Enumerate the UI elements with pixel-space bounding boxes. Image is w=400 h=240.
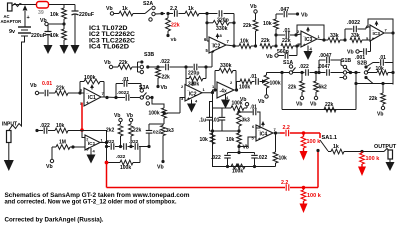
bottom network wire bbox=[212, 166, 276, 168]
svg-text:220uF: 220uF bbox=[79, 12, 94, 18]
resistor 6k2 to Vb bbox=[315, 73, 317, 82]
ground under 10k bbox=[63, 40, 65, 45]
svg-text:33k: 33k bbox=[330, 33, 339, 39]
resistor 10k upper bbox=[63, 5, 65, 9]
wire output bbox=[234, 89, 238, 91]
wire pin5 to Vb node bbox=[240, 137, 256, 147]
capacitor .01 loop to S2B bbox=[366, 63, 380, 68]
wire wiper to IC2a pin3 bbox=[180, 98, 185, 114]
wire output down to 10k bbox=[275, 133, 277, 152]
feedback wire IC3a bbox=[317, 39, 324, 40]
svg-text:Vb: Vb bbox=[301, 13, 308, 19]
node Vb top chain bbox=[110, 12, 113, 15]
svg-text:.1u: .1u bbox=[199, 118, 206, 124]
svg-text:10k: 10k bbox=[240, 39, 249, 45]
svg-text:.022: .022 bbox=[105, 139, 115, 145]
resistor 2k2 to Vb bbox=[119, 118, 122, 121]
svg-text:100k: 100k bbox=[239, 85, 250, 91]
red resistor 100 k to ground bbox=[303, 133, 305, 137]
wiper from pot gain trim bbox=[237, 109, 241, 113]
node bbox=[251, 45, 256, 47]
svg-text:33k: 33k bbox=[351, 33, 360, 39]
capacitor .1 bbox=[210, 102, 213, 118]
svg-text:.022: .022 bbox=[152, 130, 162, 136]
op-amp IC4 bbox=[256, 125, 273, 141]
IC1a output bbox=[100, 142, 107, 144]
svg-text:IC1: IC1 bbox=[88, 141, 96, 147]
top supply rail bbox=[13, 4, 37, 6]
red ground 2 bbox=[300, 151, 308, 161]
svg-text:10k: 10k bbox=[50, 12, 59, 18]
capacitor .022 right bbox=[254, 153, 256, 155]
svg-text:.047: .047 bbox=[279, 7, 289, 13]
wire bbox=[368, 72, 377, 74]
svg-text:.01: .01 bbox=[213, 118, 220, 124]
svg-text:100 k: 100 k bbox=[307, 139, 322, 145]
resistor 100k bbox=[237, 81, 241, 83]
svg-text:.022: .022 bbox=[40, 123, 50, 129]
wire battery minus down to input jack bbox=[22, 36, 25, 119]
op-amp IC2 pins 1-3 bbox=[185, 85, 202, 102]
svg-text:220p: 220p bbox=[188, 71, 199, 77]
svg-text:1k: 1k bbox=[333, 144, 339, 150]
capacitor .0047 upper parallel bbox=[318, 60, 320, 73]
resistor 1k output bbox=[328, 151, 331, 153]
svg-text:22k: 22k bbox=[56, 86, 65, 92]
svg-text:ADAPTOR: ADAPTOR bbox=[1, 19, 22, 24]
svg-text:6k2: 6k2 bbox=[319, 85, 328, 91]
svg-text:Vb: Vb bbox=[161, 85, 168, 91]
input network .022 10k bbox=[35, 129, 38, 132]
capacitor .01 to IC4 bbox=[252, 109, 254, 116]
svg-text:2: 2 bbox=[86, 137, 88, 141]
wire row y131 bbox=[210, 130, 240, 132]
svg-text:.0022: .0022 bbox=[347, 20, 360, 26]
capacitor .01 bbox=[252, 81, 255, 83]
wire to pin2 bbox=[82, 131, 85, 138]
svg-text:Vb: Vb bbox=[106, 6, 113, 12]
switch S3A bbox=[140, 89, 143, 92]
svg-text:Vb: Vb bbox=[377, 112, 383, 118]
wire line A to pin6 bbox=[256, 112, 260, 128]
pot 100k (drive) bbox=[162, 108, 167, 118]
svg-text:1M: 1M bbox=[59, 140, 66, 146]
svg-text:2k2: 2k2 bbox=[106, 128, 115, 134]
resistor 10k lower bbox=[63, 24, 65, 29]
red wire up to SA1.1 bbox=[317, 151, 319, 188]
op-amp IC1 pins 5-7 bbox=[84, 88, 101, 106]
resistor 22k pullup to Vb bbox=[255, 31, 257, 46]
wire cap tops bbox=[228, 152, 255, 154]
capacitor 0.01 (red label) bbox=[39, 92, 44, 94]
red mod wire pin5 to input node bbox=[81, 103, 83, 131]
node Vb S3B feed bbox=[109, 65, 112, 68]
wire down to IC2a pin2 bbox=[185, 67, 187, 85]
svg-text:Vb: Vb bbox=[266, 54, 273, 60]
pot 100k gain trim bbox=[212, 93, 214, 167]
svg-text:and corrected. Now we got GT-2: and corrected. Now we got GT-2_12 older … bbox=[5, 199, 177, 206]
resistor 1k second bbox=[185, 11, 199, 16]
svg-text:.022: .022 bbox=[258, 155, 268, 161]
capacitor 220uF (Vb filter) bbox=[47, 24, 49, 31]
AC adaptor jack bbox=[8, 3, 13, 11]
svg-text:100k: 100k bbox=[270, 81, 281, 87]
svg-text:.01: .01 bbox=[283, 28, 290, 34]
svg-text:100 k: 100 k bbox=[366, 156, 381, 162]
svg-text:100k: 100k bbox=[232, 169, 243, 175]
svg-text:IC3: IC3 bbox=[373, 31, 381, 37]
svg-text:10k: 10k bbox=[50, 33, 59, 39]
svg-text:22k: 22k bbox=[261, 38, 270, 44]
capacitor .022 bbox=[302, 72, 305, 74]
svg-text:.01: .01 bbox=[379, 55, 386, 61]
ground input jack bbox=[8, 143, 10, 161]
svg-text:IC4: IC4 bbox=[260, 132, 268, 138]
svg-text:_: _ bbox=[85, 90, 89, 95]
svg-text:22k: 22k bbox=[243, 23, 252, 29]
svg-text:Vb: Vb bbox=[310, 102, 316, 108]
red ground 3 bbox=[358, 167, 366, 177]
ground under 220uF 2 bbox=[71, 45, 80, 54]
wire bbox=[155, 13, 165, 16]
svg-text:Vb: Vb bbox=[258, 99, 264, 105]
resistor 33k second bbox=[350, 38, 362, 43]
feedback wire IC1a bbox=[82, 131, 107, 143]
svg-text:2.2: 2.2 bbox=[281, 180, 288, 186]
battery 9v bbox=[24, 11, 26, 27]
branch 10k and cap .047 to Vb bbox=[275, 29, 277, 46]
capacitor .01 bypass branch bbox=[115, 84, 117, 98]
resistor 33k bbox=[324, 39, 328, 41]
svg-text:_: _ bbox=[186, 86, 190, 91]
capacitor .022 tone bbox=[158, 66, 165, 68]
red resistor 100 k bus to ground bbox=[303, 188, 305, 191]
capacitor .01 vert bbox=[221, 108, 223, 117]
wire output down right side bbox=[392, 33, 394, 85]
svg-text:Vb: Vb bbox=[347, 50, 354, 56]
resistor 3k3 bbox=[162, 124, 164, 126]
node Vb (supply midpoint) bbox=[45, 22, 48, 25]
svg-text:Vb: Vb bbox=[171, 37, 177, 42]
svg-text:22k: 22k bbox=[133, 128, 142, 134]
svg-text:3k3: 3k3 bbox=[242, 118, 251, 124]
resistor 1k bbox=[114, 13, 119, 15]
wire bottom row bbox=[282, 109, 356, 111]
capacitor .0022 in line bbox=[116, 97, 125, 99]
svg-text:Vb: Vb bbox=[296, 102, 302, 108]
capacitor .001 from Vb to pin5 bbox=[356, 50, 359, 53]
svg-text:2.2: 2.2 bbox=[170, 6, 177, 12]
svg-text:39: 39 bbox=[38, 10, 44, 16]
capacitor .022 left bbox=[227, 153, 229, 155]
svg-text:10k: 10k bbox=[200, 137, 209, 143]
capacitor .0047 lower bbox=[316, 72, 326, 74]
red capacitor 2.2 bus bbox=[285, 184, 287, 191]
resistor 10k mid bbox=[238, 131, 240, 133]
red resistor 100 k output load bbox=[361, 152, 363, 154]
capacitor .022 row 1 bbox=[107, 146, 111, 148]
wire S3A pole to pot bbox=[152, 98, 164, 109]
op-amp IC2 pins 5-7 bbox=[209, 37, 226, 53]
svg-text:Vb: Vb bbox=[157, 165, 164, 171]
capacitor .0022 bbox=[344, 29, 346, 40]
svg-text:10k: 10k bbox=[226, 137, 235, 143]
red capacitor 2.2 bbox=[285, 130, 287, 137]
svg-text:OUTPUT: OUTPUT bbox=[374, 144, 397, 150]
ground under 220uF bbox=[44, 45, 53, 54]
svg-text:22k: 22k bbox=[288, 85, 297, 91]
wire S2B lower to bottom row bbox=[366, 78, 393, 84]
svg-text:1k: 1k bbox=[122, 6, 128, 12]
svg-text:220uF: 220uF bbox=[31, 33, 46, 39]
capacitor .022 row 2 bbox=[121, 146, 123, 148]
wiper arrow into drive pot bbox=[262, 79, 266, 83]
svg-text:3: 3 bbox=[86, 147, 88, 151]
capacitor 220uF (supply filter) bbox=[74, 5, 76, 12]
feedback wire IC3b bbox=[368, 19, 393, 33]
svg-text:.01: .01 bbox=[250, 105, 257, 111]
diode arrow on battery feed bbox=[23, 5, 28, 11]
svg-text:1k: 1k bbox=[188, 6, 194, 12]
ground output jack bbox=[389, 159, 391, 162]
resistor 10k output leg bbox=[273, 152, 278, 163]
capacitor 2.2 bbox=[168, 13, 173, 15]
op-amp IC3 pins 1-3 bbox=[301, 31, 317, 47]
capacitor 560p to Vb bbox=[296, 46, 298, 56]
red mod wire from IC1a output node bbox=[105, 161, 109, 165]
svg-text:.01: .01 bbox=[250, 74, 257, 80]
resistor 22k bbox=[55, 91, 68, 96]
resistor 22k to Vb S3A row bbox=[157, 67, 159, 68]
svg-text:Vb: Vb bbox=[240, 97, 246, 103]
svg-text:.022: .022 bbox=[129, 139, 139, 145]
resistor 330k parallel bbox=[185, 67, 187, 79]
resistor 22k to Vb row bbox=[129, 118, 132, 121]
red bus bottom bbox=[107, 187, 286, 189]
IC4 output bbox=[273, 132, 280, 134]
svg-text:330k: 330k bbox=[220, 63, 232, 69]
svg-text:9v: 9v bbox=[9, 29, 16, 35]
svg-text:+: + bbox=[303, 43, 306, 48]
wire pin5 down to tone network bbox=[211, 52, 213, 67]
wire branch down from S1A row bbox=[280, 71, 283, 74]
op-amp -4x bbox=[217, 82, 234, 98]
resistor 22k series 2 bbox=[281, 44, 293, 49]
resistor 22k to Vb (red label) bbox=[167, 14, 169, 19]
resistor 22k horizontal bbox=[324, 107, 336, 112]
svg-text:.0047: .0047 bbox=[319, 53, 332, 59]
svg-text:S2A: S2A bbox=[143, 1, 153, 7]
wire bbox=[293, 72, 302, 74]
svg-text:330k: 330k bbox=[216, 26, 228, 32]
wire pin3 bbox=[297, 44, 301, 46]
wire IC2a output to -4x stage bbox=[202, 90, 217, 93]
svg-text:S3A: S3A bbox=[139, 85, 149, 91]
svg-text:Corrected by DarkAngel (Russia: Corrected by DarkAngel (Russia). bbox=[5, 217, 104, 224]
svg-text:SA1.1: SA1.1 bbox=[322, 135, 338, 141]
wire 3k3 to Vb bbox=[162, 136, 164, 161]
svg-text:Vb: Vb bbox=[127, 113, 133, 119]
svg-text:IC2: IC2 bbox=[213, 44, 221, 50]
resistor 22k to Vb right bbox=[381, 82, 384, 85]
svg-text:22k: 22k bbox=[282, 38, 291, 44]
red wire IC4 output bbox=[280, 132, 285, 134]
svg-text:S3B: S3B bbox=[144, 52, 154, 58]
svg-text:.022: .022 bbox=[160, 59, 170, 65]
capacitor .01 to IC3 pin2 bbox=[274, 33, 277, 36]
inverting stage -4x with 330k feedback bbox=[214, 71, 216, 91]
resistor 10k bbox=[377, 70, 388, 75]
svg-text:S1B: S1B bbox=[341, 58, 351, 64]
svg-text:100 k: 100 k bbox=[307, 193, 322, 199]
svg-text:.022: .022 bbox=[116, 154, 126, 160]
wire IC1b output bbox=[101, 96, 104, 98]
resistor 100k feedback bbox=[79, 82, 81, 94]
svg-text:10k: 10k bbox=[279, 156, 288, 162]
svg-text:Vb: Vb bbox=[46, 164, 53, 170]
svg-text:.022: .022 bbox=[299, 64, 309, 70]
resistor 10k left bbox=[210, 133, 215, 144]
svg-text:3k3: 3k3 bbox=[166, 128, 175, 134]
resistor 1M to Vb bbox=[56, 145, 70, 150]
svg-text:10k: 10k bbox=[263, 21, 272, 27]
wire drop mid bbox=[355, 73, 357, 84]
svg-text:IC2: IC2 bbox=[189, 92, 197, 98]
node Vb mid bbox=[35, 91, 38, 94]
op-amp IC1 pins 1-3 bbox=[85, 135, 100, 150]
wire right column down bbox=[356, 83, 393, 85]
svg-text:.0022: .0022 bbox=[117, 90, 129, 96]
svg-text:22k: 22k bbox=[119, 60, 128, 66]
svg-text:Vb: Vb bbox=[104, 60, 111, 66]
svg-text:+: + bbox=[27, 15, 30, 21]
svg-text:0.01: 0.01 bbox=[42, 81, 52, 87]
svg-text:IC4 TL062D: IC4 TL062D bbox=[89, 44, 130, 51]
svg-text:Vb: Vb bbox=[40, 18, 47, 24]
svg-text:IC1: IC1 bbox=[88, 95, 96, 101]
red ground bbox=[300, 204, 308, 214]
svg-text:100k: 100k bbox=[84, 75, 96, 81]
svg-text:10k: 10k bbox=[56, 123, 65, 129]
resistor 22k series bbox=[260, 44, 272, 49]
svg-text:100k: 100k bbox=[120, 165, 131, 171]
svg-text:100k: 100k bbox=[149, 111, 160, 117]
svg-text:2.2: 2.2 bbox=[283, 125, 290, 131]
wire bbox=[347, 72, 361, 74]
pot 100k drive amount bbox=[264, 75, 269, 88]
svg-text:Vb: Vb bbox=[250, 4, 257, 10]
resistor 100k bypass bbox=[106, 147, 108, 163]
wire adaptor to rail with switch hook bbox=[12, 4, 22, 7]
svg-text:INPUT: INPUT bbox=[2, 122, 17, 128]
resistor 10k bbox=[234, 45, 239, 47]
switch S2A bbox=[133, 13, 145, 15]
wire line A bbox=[239, 111, 253, 113]
capacitor .022 row 3 bbox=[131, 146, 134, 148]
resistor 39 (red highlighted) bbox=[37, 2, 49, 9]
capacitor 220p bbox=[186, 66, 193, 68]
svg-text:10k: 10k bbox=[376, 66, 385, 72]
resistor 22k feed bbox=[113, 66, 118, 68]
parallel cap .022 and resistor 3k3 below pot bbox=[163, 118, 165, 124]
resistor 22k to Vb branch S1A bbox=[301, 73, 303, 82]
pot 100k bottom bbox=[231, 164, 245, 169]
wire IC2 output to chain bbox=[226, 44, 234, 47]
svg-text:.01: .01 bbox=[122, 77, 129, 83]
op-amp IC3 pins 5-7 bbox=[370, 25, 384, 41]
svg-text:Vb: Vb bbox=[30, 83, 37, 89]
svg-text:22k: 22k bbox=[325, 102, 334, 108]
capacitor 220p feedback bbox=[207, 13, 218, 15]
svg-text:Vb: Vb bbox=[114, 113, 120, 119]
svg-text:.022: .022 bbox=[211, 155, 221, 161]
svg-text:22k: 22k bbox=[369, 96, 378, 102]
resistor 330k feedback bbox=[206, 14, 208, 42]
resistor 3k3 vert bbox=[238, 111, 240, 113]
svg-text:22k: 22k bbox=[162, 75, 171, 81]
svg-text:IC3: IC3 bbox=[305, 37, 313, 43]
wire to IC2top pin5 bbox=[206, 66, 212, 68]
svg-text:560p: 560p bbox=[277, 49, 289, 55]
red stub at switch bbox=[319, 133, 321, 138]
svg-text:22k: 22k bbox=[171, 23, 180, 29]
